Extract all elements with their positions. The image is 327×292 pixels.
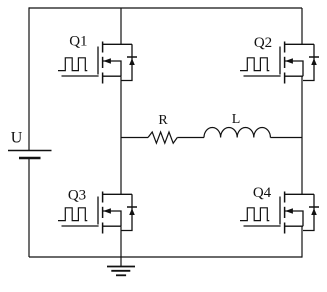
svg-text:Q2: Q2 — [254, 35, 272, 51]
svg-text:Q3: Q3 — [68, 187, 86, 203]
svg-text:L: L — [232, 112, 241, 127]
svg-text:Q1: Q1 — [69, 33, 87, 49]
svg-text:Q4: Q4 — [253, 185, 272, 201]
svg-text:R: R — [158, 113, 168, 128]
svg-text:U: U — [11, 130, 23, 147]
